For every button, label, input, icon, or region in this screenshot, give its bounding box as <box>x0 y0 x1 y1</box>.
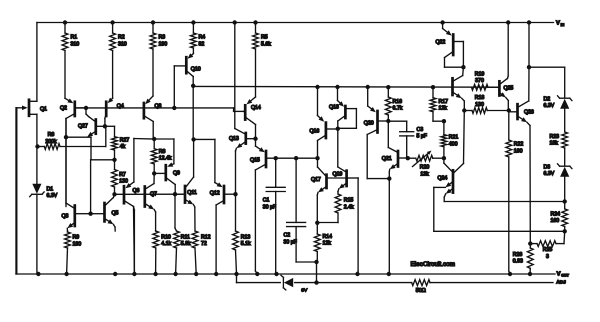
transistor Q17 <box>317 158 345 223</box>
label R14 <box>323 234 333 247</box>
node cs-R16 <box>386 85 390 89</box>
svg-text:2.4k: 2.4k <box>344 204 354 210</box>
svg-text:C2: C2 <box>284 233 291 239</box>
node Q3Q5base <box>88 212 92 216</box>
transistor Q8 <box>144 96 153 139</box>
diode D1 <box>30 184 44 197</box>
resistor R27 <box>112 126 118 160</box>
node R17R21 <box>442 119 446 123</box>
svg-text:R13: R13 <box>241 234 251 240</box>
svg-text:Q2: Q2 <box>60 105 67 111</box>
wire Q24 em1 <box>434 187 565 231</box>
label R24 <box>551 211 561 224</box>
node Q4col <box>103 124 107 128</box>
node C2top <box>294 156 298 160</box>
svg-text:D1: D1 <box>47 186 54 192</box>
resistor R16 <box>385 87 391 121</box>
label Q6 <box>133 188 140 194</box>
resistor R13 <box>233 194 239 274</box>
node bus-236.5 <box>234 272 238 276</box>
transistor Q18 <box>338 87 357 129</box>
svg-text:Q8: Q8 <box>155 104 162 110</box>
svg-text:310: 310 <box>118 41 127 47</box>
label R16 <box>393 99 403 112</box>
svg-text:Q13: Q13 <box>229 136 239 142</box>
transistor Q21 <box>388 121 408 274</box>
node bus-38.4 <box>36 272 40 276</box>
wire D1 bottom <box>36 194 38 274</box>
svg-text:R6: R6 <box>48 132 55 138</box>
transistor Q16 <box>318 87 338 158</box>
svg-text:82: 82 <box>199 41 205 47</box>
svg-text:Q9: Q9 <box>173 171 180 177</box>
svg-text:5.1k: 5.1k <box>241 241 251 247</box>
node bus-276.5 <box>274 272 278 276</box>
svg-text:Q14: Q14 <box>251 105 261 111</box>
svg-text:Q16: Q16 <box>310 129 320 135</box>
node R14-ADJ <box>314 280 318 284</box>
node C2bot <box>314 260 318 264</box>
svg-text:30 pF: 30 pF <box>263 204 276 210</box>
node Q11base <box>173 192 177 196</box>
resistor R4 <box>191 23 197 54</box>
node cs-start <box>191 84 195 88</box>
node bus-175.6 <box>173 272 177 276</box>
transistor Q12 <box>194 139 236 274</box>
node bus-388.8 <box>387 272 391 276</box>
transistor Q19 <box>338 167 358 274</box>
label R17 <box>439 99 449 112</box>
node cs-Q16 <box>315 85 319 89</box>
svg-text:160: 160 <box>551 218 560 224</box>
diode D3 <box>558 164 572 177</box>
node D3R24 <box>563 199 567 203</box>
svg-text:R1: R1 <box>71 35 78 41</box>
label Q19 <box>333 172 343 178</box>
svg-text:12k: 12k <box>323 241 332 247</box>
resistor R18 <box>464 108 509 114</box>
svg-text:310: 310 <box>71 41 80 47</box>
svg-text:Q20: Q20 <box>364 121 374 127</box>
svg-text:130: 130 <box>475 102 484 108</box>
resistor R6 <box>38 126 106 149</box>
svg-text:C3: C3 <box>417 127 424 133</box>
wire R8top-left <box>134 138 154 141</box>
resistor R3 <box>150 23 156 97</box>
svg-text:6.3V: 6.3V <box>544 103 555 109</box>
label Q9 <box>173 171 180 177</box>
node bus-134.4 <box>132 272 136 276</box>
label R21 <box>449 135 459 148</box>
label Q15 <box>250 158 260 164</box>
svg-text:C1: C1 <box>263 198 270 204</box>
transistor Q23 <box>453 67 465 110</box>
label R7 <box>119 172 128 185</box>
transistor Q14 <box>244 97 256 139</box>
transistor Q4 <box>105 98 113 127</box>
transistor Q10 <box>174 53 193 108</box>
node rail-R1 <box>63 20 67 24</box>
node Q21base <box>406 156 410 160</box>
svg-text:4k: 4k <box>120 144 126 150</box>
svg-text:370: 370 <box>475 78 484 84</box>
svg-text:72: 72 <box>201 241 207 247</box>
node rail-R2 <box>110 20 114 24</box>
svg-text:12k: 12k <box>439 106 448 112</box>
wire ADJ line <box>237 274 554 283</box>
node R7bot <box>112 192 116 196</box>
svg-text:R3: R3 <box>159 35 166 41</box>
resistor R26 <box>527 244 533 274</box>
svg-text:6.3V: 6.3V <box>544 171 555 177</box>
label R6 <box>45 132 57 145</box>
label Q3 <box>62 213 69 219</box>
wire base bus <box>76 108 244 112</box>
node Q27e <box>64 135 68 139</box>
node Q23e-R18 <box>462 108 466 112</box>
resistor R23 <box>562 132 568 166</box>
transistor Q24 <box>444 111 464 194</box>
label R9 <box>73 235 82 248</box>
node bus-115.2 <box>113 272 117 276</box>
transistor Q5 <box>91 194 116 231</box>
label Q14 <box>251 105 261 111</box>
label Q10 <box>191 67 201 73</box>
label V_OUT <box>557 271 570 277</box>
transistor Q9 <box>154 162 175 194</box>
label Q20 <box>364 121 374 127</box>
capacitor C1 <box>266 158 285 274</box>
svg-text:R24: R24 <box>551 211 561 217</box>
svg-text:ElecCircuit.com: ElecCircuit.com <box>411 261 456 268</box>
node R20R21 <box>442 156 446 160</box>
wire D2 branch <box>529 67 565 97</box>
wire Q3Q5-col <box>90 160 92 214</box>
resistor R17 <box>430 87 444 121</box>
resistor R10 <box>153 231 159 274</box>
svg-text:Q3: Q3 <box>62 213 69 219</box>
svg-text:Q6: Q6 <box>133 188 140 194</box>
svg-text:R14: R14 <box>323 234 333 240</box>
svg-text:5 pF: 5 pF <box>417 134 427 140</box>
label Q1 <box>40 106 47 112</box>
label Q24 <box>438 175 448 181</box>
label Q2 <box>60 105 67 111</box>
svg-text:R25: R25 <box>543 247 553 253</box>
node R18-Q26 <box>507 108 511 112</box>
wire pnp-base-line <box>115 193 184 195</box>
svg-text:R8: R8 <box>159 149 166 155</box>
svg-text:R17: R17 <box>439 99 449 105</box>
label 50ohm <box>416 288 426 294</box>
wire V_IN top rail <box>37 22 554 24</box>
svg-text:R7: R7 <box>119 172 126 178</box>
label D2 <box>544 96 555 109</box>
wire Q24 em2 <box>444 194 565 202</box>
svg-text:190: 190 <box>159 41 168 47</box>
svg-text:R16: R16 <box>393 99 403 105</box>
svg-text:R21: R21 <box>449 135 459 141</box>
svg-text:R2: R2 <box>118 35 125 41</box>
svg-text:6V: 6V <box>301 288 308 294</box>
label D1 <box>47 186 58 199</box>
svg-text:R23: R23 <box>550 134 560 140</box>
label R27 <box>120 137 130 150</box>
node cs-R17 <box>431 85 435 89</box>
label R5 <box>261 35 271 48</box>
svg-text:6.3V: 6.3V <box>47 193 58 199</box>
node R6-left <box>35 144 39 148</box>
diode D2 <box>558 96 572 109</box>
wire Q27 base line <box>105 125 115 127</box>
node R27bot <box>112 158 116 162</box>
label watermark <box>411 261 456 268</box>
label R8 <box>159 149 172 162</box>
transistor Q22 <box>443 23 464 68</box>
svg-text:Q1: Q1 <box>40 106 47 112</box>
svg-text:R12: R12 <box>201 234 211 240</box>
resistor R9 <box>65 232 71 274</box>
label R25 <box>543 247 553 260</box>
label 6V <box>301 288 308 294</box>
node Q12base <box>233 192 237 196</box>
svg-text:50Ω: 50Ω <box>416 288 426 294</box>
resistor R11 <box>174 194 180 274</box>
svg-text:D2: D2 <box>544 96 551 102</box>
svg-text:R20: R20 <box>420 165 430 171</box>
svg-text:12.4k: 12.4k <box>159 156 172 162</box>
node Q18cb <box>336 127 340 131</box>
svg-text:130: 130 <box>119 179 128 185</box>
transistor Q26 <box>509 23 531 244</box>
resistor R8 <box>151 139 157 173</box>
svg-text:Q24: Q24 <box>438 175 448 181</box>
label R2 <box>118 35 127 48</box>
svg-text:R4: R4 <box>199 35 206 41</box>
wire Q18-Q19col <box>337 129 339 167</box>
svg-text:5.8k: 5.8k <box>181 241 191 247</box>
label R10 <box>161 234 171 247</box>
svg-text:3: 3 <box>546 254 549 260</box>
label Q17 <box>311 177 321 183</box>
label R13 <box>241 234 251 247</box>
svg-text:6.7k: 6.7k <box>393 106 403 112</box>
label R26 <box>513 252 523 265</box>
label Q8 <box>155 104 162 110</box>
node rail-Q26 <box>527 20 531 24</box>
svg-text:18k: 18k <box>550 141 559 147</box>
transistor Q25 <box>488 23 508 111</box>
node Q14col <box>253 137 257 141</box>
svg-text:Q19: Q19 <box>333 172 343 178</box>
node busQ10 <box>172 106 176 110</box>
transistor Q11 <box>175 139 195 231</box>
label C2 <box>284 233 297 246</box>
label Q18 <box>329 105 339 111</box>
wire Q1 gate <box>16 108 18 274</box>
label R19 <box>475 71 485 84</box>
node rail-R3 <box>151 20 155 24</box>
node rail-Q22 <box>440 20 444 24</box>
svg-text:R10: R10 <box>161 234 171 240</box>
transistor Q1 <box>17 23 37 147</box>
node rail-R5 <box>253 20 257 24</box>
label Q13 <box>229 136 239 142</box>
svg-text:160: 160 <box>514 148 523 154</box>
wire D2-R23 <box>564 109 566 132</box>
resistor R19 <box>472 84 489 90</box>
node bus-66.6 <box>64 272 68 276</box>
svg-text:0.83: 0.83 <box>513 259 523 265</box>
label Q21 <box>382 156 392 162</box>
wire V_OUT bottom bus <box>16 108 555 274</box>
transistor Q7 <box>145 173 156 231</box>
svg-text:V: V <box>556 21 560 27</box>
svg-text:30 pF: 30 pF <box>284 239 297 245</box>
svg-text:4.1k: 4.1k <box>161 241 171 247</box>
resistor R50 <box>412 280 430 286</box>
capacitor C3 <box>388 121 413 158</box>
wire Q10col-down <box>192 86 194 140</box>
svg-text:Q11: Q11 <box>187 190 197 196</box>
wire R8top-right <box>154 139 174 164</box>
transistor Q2 <box>65 98 85 206</box>
svg-text:D3: D3 <box>544 164 551 170</box>
node bus-216.2 <box>214 272 218 276</box>
svg-text:400: 400 <box>449 141 458 147</box>
resistor R1 <box>62 23 68 99</box>
svg-text:V: V <box>557 271 561 277</box>
node bus-257.3 <box>255 272 259 276</box>
wire D3-R24 <box>564 177 566 202</box>
label R4 <box>199 35 206 48</box>
svg-text:Q17: Q17 <box>311 177 321 183</box>
node R24bot <box>563 229 567 233</box>
resistor R2 <box>110 23 116 99</box>
svg-text:Q27: Q27 <box>78 123 88 129</box>
node R8bot <box>152 171 156 175</box>
resistor R24 <box>562 202 568 232</box>
label R23 <box>550 134 560 147</box>
node Q21e <box>387 176 391 180</box>
svg-text:R18: R18 <box>475 95 485 101</box>
svg-text:R5: R5 <box>261 35 268 41</box>
svg-text:IN: IN <box>561 23 565 27</box>
transistor Q27 <box>86 108 105 137</box>
svg-text:R19: R19 <box>475 71 485 77</box>
resistor R21 <box>441 121 447 158</box>
label R22 <box>514 142 524 155</box>
node rail-Q25 <box>506 20 510 24</box>
transistor Q13 <box>235 129 256 195</box>
svg-text:OUT: OUT <box>561 274 569 278</box>
node bus-510 <box>508 272 512 276</box>
node bus-530 <box>528 272 532 276</box>
svg-text:Q26: Q26 <box>524 109 534 115</box>
label R11 <box>181 234 191 247</box>
node R14top <box>315 221 319 225</box>
node bus-155.6 <box>153 272 157 276</box>
label R3 <box>159 35 168 48</box>
resistor R5 <box>253 23 259 98</box>
resistor R14 <box>314 223 320 283</box>
svg-text:Q25: Q25 <box>504 86 514 92</box>
svg-text:180: 180 <box>73 241 82 247</box>
label R18 <box>475 95 485 108</box>
svg-text:Q4: Q4 <box>117 104 124 110</box>
svg-text:R15: R15 <box>344 198 354 204</box>
node D2branch <box>527 65 531 69</box>
svg-text:R11: R11 <box>181 234 190 240</box>
node cs-Q18 <box>335 85 339 89</box>
node C1top <box>274 156 278 160</box>
node R8top <box>152 137 156 141</box>
diode DZ 6V <box>281 275 293 290</box>
transistor Q15 <box>255 139 317 274</box>
label C3 <box>417 127 427 140</box>
svg-text:200k: 200k <box>45 139 57 145</box>
label Q22 <box>436 40 446 46</box>
svg-text:ADJ: ADJ <box>556 280 566 286</box>
wire D1 top <box>36 147 38 184</box>
wire Q27 emitter line <box>66 137 91 160</box>
label Q26 <box>524 109 534 115</box>
wire vertA <box>234 23 236 129</box>
wire current bus <box>193 85 498 88</box>
svg-text:Q21: Q21 <box>382 156 392 162</box>
label Q4 <box>117 104 124 110</box>
label R1 <box>71 35 80 48</box>
node bus-196.2 <box>194 272 198 276</box>
capacitor C2 <box>287 158 317 262</box>
resistor R7 <box>112 160 118 195</box>
svg-text:Q18: Q18 <box>329 105 339 111</box>
resistor R25 <box>530 231 564 246</box>
svg-text:13k: 13k <box>420 171 429 177</box>
node rail-R4 <box>191 20 195 24</box>
label R20 <box>420 165 430 178</box>
label V_IN <box>556 21 565 27</box>
resistor R20 <box>408 151 444 167</box>
svg-text:R9: R9 <box>73 235 80 241</box>
node bus-357.5 <box>355 272 359 276</box>
label Q11 <box>187 190 197 196</box>
wire R27-Q35base <box>91 159 115 161</box>
svg-text:Q12: Q12 <box>210 190 220 196</box>
node Q10col2 <box>191 137 195 141</box>
transistor Q3 <box>66 119 91 233</box>
label D3 <box>544 164 555 177</box>
node Q16col-line <box>315 156 319 160</box>
resistor R12 <box>192 231 198 274</box>
label Q25 <box>504 86 514 92</box>
node R25R26 <box>528 241 532 245</box>
node cs-Q20 <box>366 85 370 89</box>
resistor R15 <box>317 194 341 223</box>
svg-text:R27: R27 <box>120 137 130 143</box>
label R15 <box>344 198 354 211</box>
transistor Q20 <box>367 87 389 179</box>
transistor Q6 <box>124 139 134 275</box>
label Q7 <box>150 192 157 198</box>
svg-text:R26: R26 <box>513 252 523 258</box>
node Q2Q27 <box>84 106 88 110</box>
svg-text:R22: R22 <box>514 142 524 148</box>
label Q16 <box>310 129 320 135</box>
node rail-A <box>233 20 237 24</box>
node R16bot <box>386 119 390 123</box>
label Q5 <box>112 211 119 217</box>
